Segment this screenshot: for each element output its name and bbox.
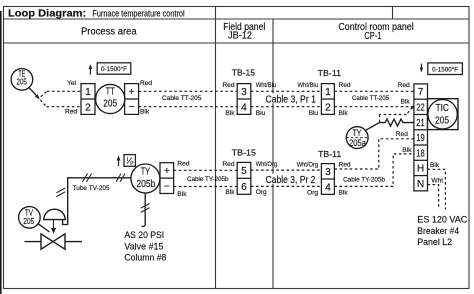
svg-text:Red: Red <box>396 131 408 138</box>
svg-text:5: 5 <box>241 166 247 177</box>
svg-text:TY: TY <box>141 166 151 177</box>
svg-text:3: 3 <box>325 167 331 178</box>
svg-text:Red: Red <box>398 82 410 89</box>
svg-text:H: H <box>417 164 424 175</box>
svg-text:Blk: Blk <box>339 190 349 197</box>
svg-text:Cable 3, Pr 1: Cable 3, Pr 1 <box>266 94 317 105</box>
svg-text:Wht: Wht <box>431 177 443 184</box>
svg-text:Column #8: Column #8 <box>124 253 166 263</box>
svg-text:Blk: Blk <box>177 191 187 198</box>
svg-text:Wht/Org: Wht/Org <box>297 162 319 169</box>
svg-text:4: 4 <box>325 182 331 193</box>
svg-text:Process area: Process area <box>81 26 137 37</box>
svg-text:1: 1 <box>325 87 331 98</box>
svg-text:205a: 205a <box>349 138 366 148</box>
svg-text:Cable TT-205: Cable TT-205 <box>352 95 390 102</box>
svg-text:Blu: Blu <box>256 110 266 117</box>
svg-text:TB-11: TB-11 <box>318 149 341 159</box>
svg-text:−: − <box>129 102 135 113</box>
svg-text:TIC: TIC <box>436 103 449 114</box>
svg-text:TT: TT <box>106 87 116 98</box>
svg-text:Yel: Yel <box>67 80 76 87</box>
svg-text:Wht/Blu: Wht/Blu <box>256 82 277 89</box>
svg-text:205: 205 <box>103 99 117 110</box>
svg-text:Blk: Blk <box>339 110 349 117</box>
svg-text:22: 22 <box>416 103 425 114</box>
svg-text:Wht/Blu: Wht/Blu <box>298 82 319 89</box>
svg-text:Cable TT-205: Cable TT-205 <box>162 95 202 102</box>
svg-text:1: 1 <box>85 87 91 98</box>
svg-text:Red: Red <box>222 82 234 89</box>
svg-text:19: 19 <box>416 133 425 144</box>
svg-text:Org: Org <box>256 189 267 196</box>
svg-text:4: 4 <box>241 102 247 113</box>
svg-text:18: 18 <box>416 148 425 159</box>
svg-text:Blu: Blu <box>309 110 319 117</box>
svg-text:Blk: Blk <box>401 98 411 105</box>
svg-text:205: 205 <box>23 217 34 226</box>
svg-text:TB-15: TB-15 <box>232 147 256 157</box>
svg-text:Wht/Org: Wht/Org <box>256 161 278 168</box>
svg-text:2: 2 <box>325 102 331 113</box>
svg-text:+: + <box>129 87 135 98</box>
svg-text:2: 2 <box>85 102 91 113</box>
svg-text:Org: Org <box>307 190 318 197</box>
svg-text:Red: Red <box>177 161 189 168</box>
svg-text:Blk: Blk <box>430 162 440 169</box>
svg-text:0-1500°F: 0-1500°F <box>432 65 458 73</box>
svg-text:3: 3 <box>241 87 247 98</box>
svg-text:N: N <box>417 179 424 190</box>
svg-text:0-1500°F: 0-1500°F <box>101 65 127 73</box>
svg-text:AS 20 PSI: AS 20 PSI <box>124 230 164 240</box>
svg-text:Panel L2: Panel L2 <box>417 237 452 247</box>
svg-text:205b: 205b <box>136 179 155 190</box>
svg-text:Loop Diagram:: Loop Diagram: <box>8 9 86 20</box>
svg-text:JB-12: JB-12 <box>228 31 252 42</box>
svg-text:Blk: Blk <box>402 147 412 154</box>
svg-text:ES 120 VAC: ES 120 VAC <box>417 215 468 225</box>
svg-text:Red: Red <box>222 161 234 168</box>
svg-text:6: 6 <box>241 182 247 193</box>
svg-text:Cable TY-205b: Cable TY-205b <box>187 176 229 183</box>
svg-text:205: 205 <box>435 115 449 127</box>
svg-text:−: − <box>164 181 170 192</box>
svg-text:Red: Red <box>65 109 77 116</box>
svg-text:TB-11: TB-11 <box>318 68 342 78</box>
svg-text:Blk: Blk <box>225 189 235 196</box>
svg-text:CP-1: CP-1 <box>364 31 381 42</box>
svg-text:Cable 3, Pr 2: Cable 3, Pr 2 <box>266 175 316 186</box>
svg-text:TY: TY <box>353 128 362 138</box>
svg-text:Red: Red <box>339 82 351 89</box>
svg-text:21: 21 <box>416 118 425 129</box>
svg-text:Red: Red <box>140 80 152 87</box>
svg-text:Tube TV-205: Tube TV-205 <box>73 185 111 192</box>
svg-text:Red: Red <box>339 162 351 169</box>
svg-text:Furnace temperature control: Furnace temperature control <box>92 9 184 19</box>
svg-text:Blk: Blk <box>225 110 235 117</box>
svg-text:Valve #15: Valve #15 <box>124 241 163 251</box>
svg-text:Breaker #4: Breaker #4 <box>417 226 459 236</box>
svg-text:Blk: Blk <box>140 109 150 116</box>
svg-text:+: + <box>164 166 170 177</box>
svg-text:7: 7 <box>418 87 424 98</box>
svg-text:TB-15: TB-15 <box>232 67 255 77</box>
svg-text:205: 205 <box>17 78 28 87</box>
svg-text:Cable TY-205b: Cable TY-205b <box>343 176 385 183</box>
